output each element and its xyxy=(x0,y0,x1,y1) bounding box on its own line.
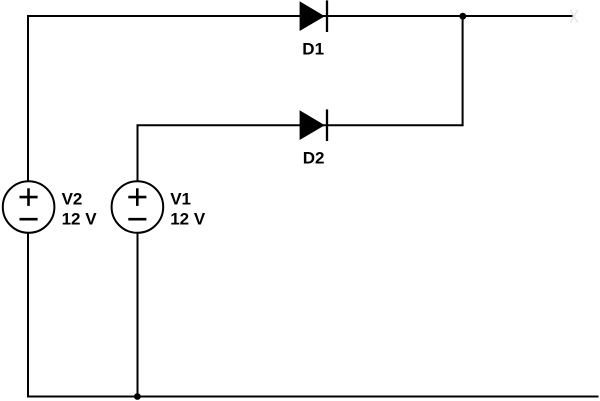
wire: V1 bottom terminal down to bottom net xyxy=(137,233,139,398)
svg-text:12 V: 12 V xyxy=(170,210,206,229)
wire: right vertical from top net junction down to D2 cathode wire xyxy=(462,16,464,126)
diode D2 xyxy=(300,109,327,141)
svg-text:V1: V1 xyxy=(170,189,191,208)
wire: V2 bottom terminal down to bottom net xyxy=(27,233,29,398)
wire: V1 top terminal up to D2 anode wire xyxy=(137,125,139,181)
svg-text:D2: D2 xyxy=(303,148,325,167)
voltage source V1 xyxy=(112,181,164,233)
wire: left vertical from top wire down to V2 top terminal xyxy=(27,15,29,182)
voltage source V2 xyxy=(3,181,55,233)
wire: top horizontal net from top-left corner to open right end xyxy=(28,15,573,17)
svg-text:D1: D1 xyxy=(302,39,324,58)
node: junction dot on top net xyxy=(459,13,466,20)
svg-text:12 V: 12 V xyxy=(62,210,98,229)
wire: bottom horizontal net xyxy=(27,396,599,398)
diode D1 xyxy=(300,0,327,32)
wire: D2 horizontal wire xyxy=(137,124,463,126)
svg-text:V2: V2 xyxy=(62,189,83,208)
node: junction dot on bottom net xyxy=(134,393,141,400)
faint open-terminal mark at top wire end xyxy=(571,10,578,23)
